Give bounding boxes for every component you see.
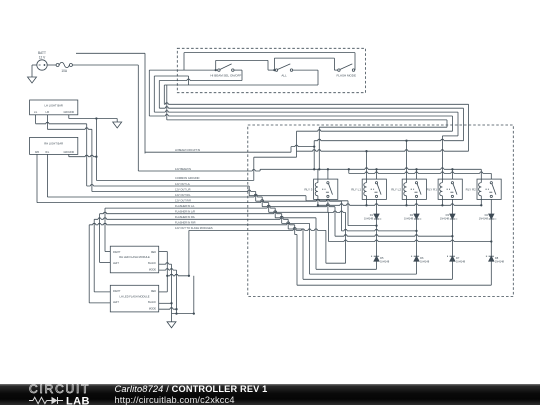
svg-text:1N4148: 1N4148	[440, 217, 450, 221]
svg-text:D2: D2	[410, 213, 414, 217]
svg-text:D3: D3	[446, 213, 450, 217]
svg-text:12 V: 12 V	[39, 56, 46, 60]
svg-text:FLASHER IN L/R: FLASHER IN L/R	[175, 210, 195, 214]
svg-text:RH LIGHT BAR: RH LIGHT BAR	[44, 142, 63, 146]
svg-text:LAB: LAB	[66, 396, 90, 405]
svg-text:GROUND: GROUND	[63, 111, 74, 114]
svg-text:D7: D7	[456, 256, 460, 260]
svg-text:R/L: R/L	[46, 151, 50, 154]
svg-text:12V OUT R/L: 12V OUT R/L	[175, 193, 191, 197]
svg-text:12V OUT L/R: 12V OUT L/R	[175, 187, 191, 191]
svg-text:1N4148: 1N4148	[456, 260, 466, 264]
svg-text:BLACK: BLACK	[148, 301, 156, 304]
svg-text:RLY 5: RLY 5	[304, 187, 312, 191]
svg-text:LH LIGHT BAR: LH LIGHT BAR	[45, 103, 63, 107]
svg-text:RIGHT: RIGHT	[113, 290, 121, 293]
svg-text:BLACK: BLACK	[148, 262, 156, 265]
svg-text:10A: 10A	[61, 69, 68, 73]
svg-text:D8: D8	[495, 256, 499, 260]
svg-text:R/R: R/R	[35, 151, 39, 154]
svg-text:RED: RED	[151, 290, 156, 293]
svg-text:FLASHER IN L/L: FLASHER IN L/L	[175, 204, 195, 208]
svg-text:RLY L1: RLY L1	[351, 187, 361, 191]
svg-text:1N4148: 1N4148	[364, 217, 374, 221]
svg-text:MODE: MODE	[149, 268, 157, 271]
svg-text:1N4148: 1N4148	[380, 260, 390, 264]
svg-text:RLY R1: RLY R1	[427, 187, 438, 191]
svg-text:FLASH MODE: FLASH MODE	[336, 73, 356, 77]
svg-text:1N4148: 1N4148	[404, 217, 414, 221]
svg-text:D4: D4	[485, 213, 489, 217]
svg-text:BATT: BATT	[38, 51, 46, 55]
svg-text:COMMON GROUND: COMMON GROUND	[175, 176, 199, 180]
svg-text:RLY L2: RLY L2	[391, 187, 401, 191]
svg-text:D6: D6	[420, 256, 424, 260]
svg-text:HI BEAM SEL ON/OFF: HI BEAM SEL ON/OFF	[210, 73, 241, 77]
svg-text:12V OUT TO FLASH MODULES: 12V OUT TO FLASH MODULES	[175, 226, 213, 230]
svg-text:MODE: MODE	[149, 308, 157, 311]
svg-text:1N4148: 1N4148	[420, 260, 430, 264]
svg-text:LH LED FLASH MODULE: LH LED FLASH MODULE	[120, 294, 150, 298]
svg-text:GROUND: GROUND	[63, 151, 74, 154]
svg-text:RED: RED	[151, 251, 156, 254]
svg-text:D5: D5	[380, 256, 384, 260]
svg-text:RIGHT: RIGHT	[113, 251, 121, 254]
svg-text:HI BEAM CIRCUIT IN: HI BEAM CIRCUIT IN	[175, 148, 200, 152]
svg-text:ALL: ALL	[281, 73, 287, 77]
svg-text:LEFT: LEFT	[113, 301, 119, 304]
svg-text:1N4148: 1N4148	[479, 217, 489, 221]
svg-text:LEFT: LEFT	[113, 262, 119, 265]
svg-text:L/L: L/L	[34, 111, 38, 114]
svg-text:D1: D1	[370, 213, 374, 217]
svg-text:12V OUT R/R: 12V OUT R/R	[175, 198, 191, 202]
svg-text:1N4148: 1N4148	[495, 260, 505, 264]
svg-text:FLASHER IN R/R: FLASHER IN R/R	[175, 221, 196, 225]
svg-text:12V OUT L/L: 12V OUT L/L	[175, 182, 191, 186]
svg-text:L/R: L/R	[46, 111, 50, 114]
svg-text:12V BEAM IN: 12V BEAM IN	[175, 167, 191, 171]
svg-text:RLY R2: RLY R2	[466, 187, 477, 191]
svg-text:FLASHER IN R/L: FLASHER IN R/L	[175, 215, 196, 219]
svg-text:RH LED FLASH MODULE: RH LED FLASH MODULE	[119, 255, 150, 259]
